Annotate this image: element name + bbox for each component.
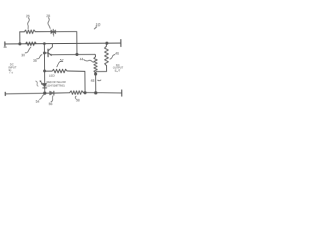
label leader squiggle for 54 xyxy=(39,95,43,100)
svg-text:48: 48 xyxy=(91,79,95,83)
wire: top branch right segment with corner down xyxy=(56,32,77,55)
wire: top branch to diode 28 xyxy=(35,31,51,33)
wire: middle rail from DC input terminal to right output terminal xyxy=(5,42,121,45)
svg-text:46: 46 xyxy=(115,52,119,56)
svg-text:LED: LED xyxy=(49,74,56,78)
svg-text:10: 10 xyxy=(95,22,101,27)
transistor 36 base wire xyxy=(44,52,47,54)
wire: diode 56 to resistor 58 xyxy=(54,92,70,94)
LED 54 cathode bar xyxy=(43,87,47,89)
transistor 36 collector xyxy=(48,44,52,51)
node: R52 branch meets bottom rail xyxy=(84,92,86,94)
resistor 52 xyxy=(52,69,67,73)
stray scan squiggle left of LED xyxy=(36,81,39,86)
label leader squiggle for 46 xyxy=(110,55,115,60)
resistor 46 (from middle rail down) xyxy=(106,42,108,44)
svg-text:44: 44 xyxy=(80,57,84,61)
resistor 52 branch wire xyxy=(45,70,52,72)
svg-text:Eo/T: Eo/T xyxy=(115,69,121,74)
svg-text:LIGHT EMITTING): LIGHT EMITTING) xyxy=(46,84,65,87)
wire: bottom rail LED junction to diode 56 xyxy=(45,92,50,94)
node: top-branch vertical joins emitter line xyxy=(76,53,78,55)
label leader squiggle for 26 xyxy=(28,18,30,29)
label leader squiggle for 30 xyxy=(25,47,31,53)
node: left branch junction xyxy=(19,43,21,45)
label leader squiggle for 44 xyxy=(84,60,94,63)
wire: top branch left segment xyxy=(20,31,24,33)
resistor 30 (middle rail, lower parallel branch) xyxy=(25,42,36,46)
svg-text:26: 26 xyxy=(26,14,30,18)
potentiometer 44 winding xyxy=(94,57,98,73)
label leader squiggle for 56 xyxy=(51,96,53,102)
LED 54 triangle xyxy=(43,83,47,87)
node: potentiometer branch meets bottom rail xyxy=(95,92,97,94)
bottom-right output terminal tick xyxy=(121,90,123,96)
bottom-left terminal blob xyxy=(4,92,6,95)
node: base junction xyxy=(43,52,45,54)
transistor 36 emitter with arrow xyxy=(48,53,52,55)
svg-text:52: 52 xyxy=(60,59,64,63)
wire: emitter line to potentiometer 44 xyxy=(52,53,95,55)
svg-text:36: 36 xyxy=(33,59,37,63)
wire: resistor 46 bottom corner to potentiometer junction xyxy=(96,66,107,74)
wire: resistor 52 to right corner down to bottom rail xyxy=(67,71,85,93)
node: potentiometer bottom junction xyxy=(95,73,97,75)
svg-text:54: 54 xyxy=(36,100,40,104)
label leader squiggle for 52 xyxy=(57,61,63,67)
svg-text:28: 28 xyxy=(46,14,50,18)
LED 54 light arrow 2 xyxy=(41,83,43,85)
svg-text:56: 56 xyxy=(49,102,53,106)
wire: left vertical of parallel branch xyxy=(19,32,21,44)
node: LED meets bottom rail xyxy=(44,92,46,94)
label leader squiggle for 48 xyxy=(98,79,101,82)
svg-text:58: 58 xyxy=(76,98,80,102)
node: R52 branch junction xyxy=(44,70,46,72)
polarity mark under input terminal xyxy=(4,46,6,48)
label leader squiggle for 36 xyxy=(37,55,42,59)
label leader for 10 xyxy=(94,27,96,29)
resistor 26 (top branch) xyxy=(24,30,35,34)
svg-text:30: 30 xyxy=(21,53,25,57)
label leader squiggle for 28 xyxy=(48,18,50,29)
input terminal tick left xyxy=(4,42,6,46)
wire: vertical from middle rail down to transistor base xyxy=(43,44,45,53)
transistor 36 base bar xyxy=(47,49,49,57)
wire: corner from emitter line down into potentiometer 44 xyxy=(94,54,97,56)
wire: LED to bottom rail xyxy=(44,88,46,93)
wire: potentiometer bottom to bottom rail xyxy=(95,73,97,93)
resistor 58 (in bottom rail) xyxy=(70,91,84,95)
diode 28 (crossed symbol on top branch) xyxy=(51,30,56,34)
output terminal tick right (middle rail) xyxy=(120,40,122,47)
diode 56 (in bottom rail) xyxy=(50,91,54,95)
svg-text:T: T xyxy=(11,71,13,75)
node: base branch junction on middle rail xyxy=(43,43,45,45)
LED 54 light arrow 1 xyxy=(40,81,42,83)
wire: bottom rail right section xyxy=(83,92,122,93)
wire: bottom rail left of LED junction xyxy=(5,92,45,95)
label leader squiggle for 58 xyxy=(74,96,77,99)
wire: LED branch vertical (base junction down to LED) xyxy=(43,53,45,83)
